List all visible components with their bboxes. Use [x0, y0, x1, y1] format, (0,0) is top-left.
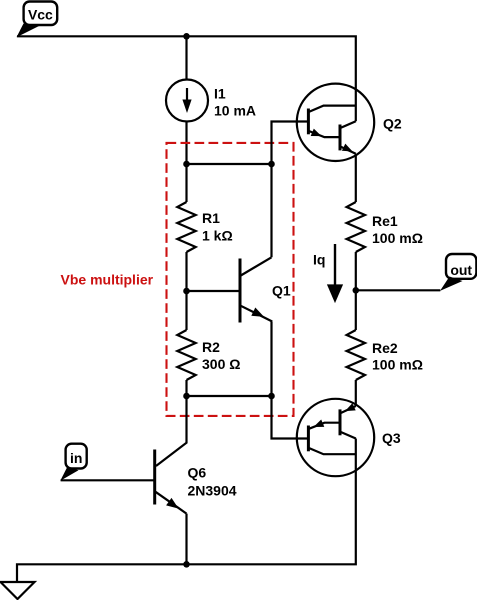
- wire R1 to node C: [185, 252, 187, 291]
- in flag: [60, 444, 86, 481]
- transistor Q6: [155, 450, 187, 565]
- svg-text:I1: I1: [214, 85, 226, 101]
- out flag: [440, 254, 476, 291]
- wire node C to R2: [185, 291, 187, 330]
- transistor Q1: [240, 164, 272, 396]
- svg-text:Vbe multiplier: Vbe multiplier: [61, 272, 154, 288]
- wire node C to Q1 base: [187, 290, 241, 292]
- node D (R2/Q6-collector net): [183, 393, 190, 400]
- svg-text:in: in: [70, 450, 82, 466]
- wire node A to R1: [185, 164, 187, 202]
- svg-text:Q6: Q6: [188, 465, 207, 481]
- svg-text:out: out: [450, 262, 472, 278]
- node Q6 emitter / ground rail junction: [183, 561, 190, 568]
- svg-text:300 Ω: 300 Ω: [202, 356, 240, 372]
- node out (Re1/Re2/out net): [353, 287, 360, 294]
- wire node E to Q3 base: [272, 396, 309, 439]
- wire out node to out flag: [356, 289, 441, 291]
- svg-text:2N3904: 2N3904: [188, 482, 237, 498]
- node Vcc/I1 junction: [183, 33, 190, 40]
- resistor R1: [177, 202, 195, 252]
- Vcc flag: [17, 2, 58, 38]
- svg-text:10 mA: 10 mA: [214, 102, 256, 118]
- node B (Q1 collector / Q2 base net): [268, 161, 275, 168]
- svg-text:100 mΩ: 100 mΩ: [372, 357, 423, 373]
- svg-text:R1: R1: [202, 210, 220, 226]
- wire Re2 to Q3 emitter: [355, 380, 357, 406]
- svg-text:Re1: Re1: [372, 213, 398, 229]
- wire I1 to Vbe-mult top: [185, 122, 187, 164]
- current annotation Iq: [327, 244, 343, 303]
- wire node D to node E: [187, 395, 272, 397]
- node C (R1/R2/Q1-base): [183, 288, 190, 295]
- wire ground rail: [17, 439, 356, 583]
- svg-text:100 mΩ: 100 mΩ: [372, 230, 423, 246]
- wire Q2 emitter to Re1: [355, 154, 357, 202]
- svg-text:Vcc: Vcc: [28, 6, 53, 22]
- svg-text:Q3: Q3: [382, 430, 401, 446]
- wire out node to Re2: [355, 290, 357, 330]
- svg-text:Q1: Q1: [272, 283, 291, 299]
- node E (Q1 emitter / Q3 base net): [268, 393, 275, 400]
- resistor Re2: [347, 330, 365, 380]
- wire node D to Q6 collector: [156, 396, 187, 466]
- wire rail to I1: [185, 36, 187, 80]
- wire Vcc rail: [17, 36, 356, 121]
- ground: [1, 582, 35, 599]
- transistor Q2: [297, 84, 374, 161]
- wire node B to Q2 base: [272, 122, 309, 165]
- resistor Re1: [347, 202, 365, 252]
- transistor Q3: [297, 399, 374, 476]
- Vbe multiplier highlight box: [167, 143, 294, 416]
- resistor R2: [177, 330, 195, 380]
- wire in to Q6 base: [61, 479, 155, 481]
- wire Re1 to out node: [355, 252, 357, 290]
- svg-text:1 kΩ: 1 kΩ: [202, 228, 233, 244]
- wire node A to node B: [187, 163, 272, 165]
- wire R2 to node D: [185, 380, 187, 396]
- svg-text:R2: R2: [202, 339, 220, 355]
- svg-text:Q2: Q2: [383, 116, 402, 132]
- node A (I1/R1/Q1-collector net): [183, 161, 190, 168]
- svg-text:Re2: Re2: [372, 340, 398, 356]
- svg-text:Iq: Iq: [313, 251, 325, 267]
- current source I1: [166, 80, 208, 122]
